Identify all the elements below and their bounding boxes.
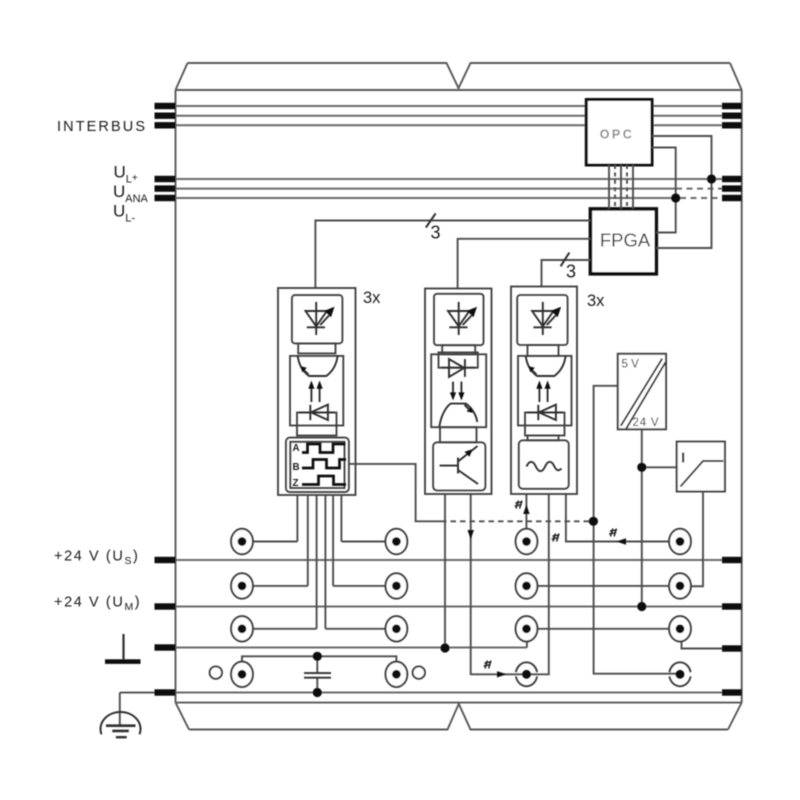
svg-text:INTERBUS: INTERBUS [57,119,147,135]
svg-text:3: 3 [566,262,576,282]
svg-text:B: B [293,462,300,473]
svg-text:FPGA: FPGA [600,230,651,251]
svg-text:I: I [681,450,685,467]
svg-text:OPC: OPC [600,128,635,142]
svg-text:3: 3 [431,223,441,243]
svg-text:3x: 3x [363,289,381,307]
svg-text:5 V: 5 V [622,359,640,371]
svg-text:24 V: 24 V [633,417,660,429]
svg-text:A: A [293,443,300,454]
svg-text:Z: Z [293,478,299,489]
svg-text:3x: 3x [587,292,605,310]
